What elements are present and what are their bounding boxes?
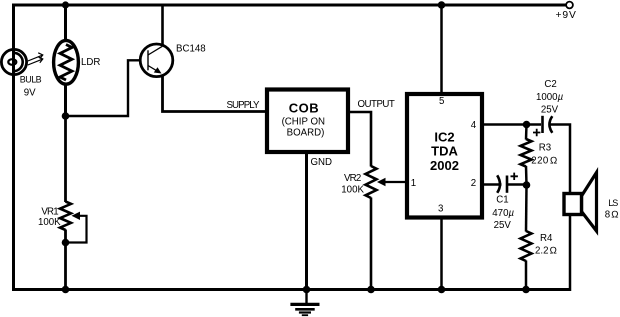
svg-text:3: 3 [438,204,443,215]
svg-text:25V: 25V [541,105,559,116]
svg-text:VR2: VR2 [344,173,361,184]
svg-text:(CHIP ON: (CHIP ON [282,116,325,127]
loudspeaker LS 8ohm [564,173,619,292]
wire pin 4 to C2/R3 node [482,123,541,126]
svg-text:OUTPUT: OUTPUT [358,99,395,110]
wire VR2 bottom to rail [370,198,373,292]
node top rail / LDR [62,1,69,8]
svg-text:5: 5 [439,96,444,107]
node pin4 / R3 / C2 [523,121,531,129]
resistor R3 220ohm [521,125,558,186]
node VR1 wiper junction [62,239,70,247]
svg-text:IC2: IC2 [434,130,454,145]
wire top rail +9V [14,4,568,7]
svg-text:R4: R4 [540,233,553,244]
resistor R4 2.2ohm [521,185,557,291]
svg-text:470µ: 470µ [492,208,514,219]
node bottom rail / R4 [522,286,530,294]
svg-text:BOARD): BOARD) [287,127,325,138]
terminal +9V [566,2,573,9]
bulb light ray arrows [28,53,43,65]
svg-text:TDA: TDA [431,144,458,159]
wire bottom rail [12,288,570,291]
svg-text:2: 2 [471,178,476,189]
node C1 / R3 / R4 [523,181,531,189]
svg-text:9V: 9V [24,88,36,99]
wire base path [66,60,141,116]
svg-text:1: 1 [411,178,416,189]
node top rail / pin5 [438,1,446,9]
svg-text:2002: 2002 [430,158,459,173]
wire LDR column [64,4,67,118]
svg-text:1000µ: 1000µ [536,92,564,103]
svg-text:GND: GND [311,157,333,168]
svg-text:LS: LS [608,198,618,208]
svg-text:C1: C1 [496,195,508,206]
svg-text:C2: C2 [544,79,556,90]
ground [290,291,319,315]
svg-text:COB: COB [289,101,319,116]
svg-text:BC148: BC148 [176,44,206,55]
wire C2 to speaker column [550,125,570,195]
svg-text:SUPPLY: SUPPLY [227,100,261,111]
wire pin 5 to +9V rail [440,5,443,94]
svg-text:25V: 25V [494,220,512,231]
svg-text:220Ω: 220Ω [531,156,557,167]
node bottom rail / COB GND [303,286,311,294]
potentiometer VR1 100K [38,116,87,291]
svg-text:R3: R3 [539,142,551,153]
transistor Q1 BC148 [140,44,205,77]
svg-text:100K: 100K [341,184,364,195]
svg-text:2.2Ω: 2.2Ω [535,246,557,257]
svg-text:100K: 100K [38,217,61,228]
svg-text:+9V: +9V [556,10,577,21]
node bottom rail / VR1 [62,286,70,294]
capacitor C2 1000u 25V [533,79,564,136]
node bottom rail / VR2 [367,286,375,294]
node LDR bottom junction [62,112,70,120]
potentiometer VR2 100K [341,166,405,198]
svg-text:LDR: LDR [81,57,100,68]
node bottom rail / pin3 [438,286,446,294]
wire emitter to COB SUPPLY [163,75,266,112]
bulb BULB 9V [1,49,41,98]
wire collector to +9V rail [161,5,164,46]
svg-text:BULB: BULB [20,75,42,85]
svg-text:8Ω: 8Ω [605,209,619,220]
wire pin 3 to ground rail [440,218,443,292]
capacitor C1 470u 25V [482,173,527,231]
op-amp U2 IC2 TDA2002 [407,94,482,218]
svg-text:4: 4 [471,120,477,131]
op-amp U1 COB (chip on board) [267,90,348,153]
resistor LDR [54,40,101,84]
wire left column [12,4,15,292]
wire COB OUTPUT to VR2 column [350,112,371,167]
wire COB GND to ground rail [305,154,308,291]
